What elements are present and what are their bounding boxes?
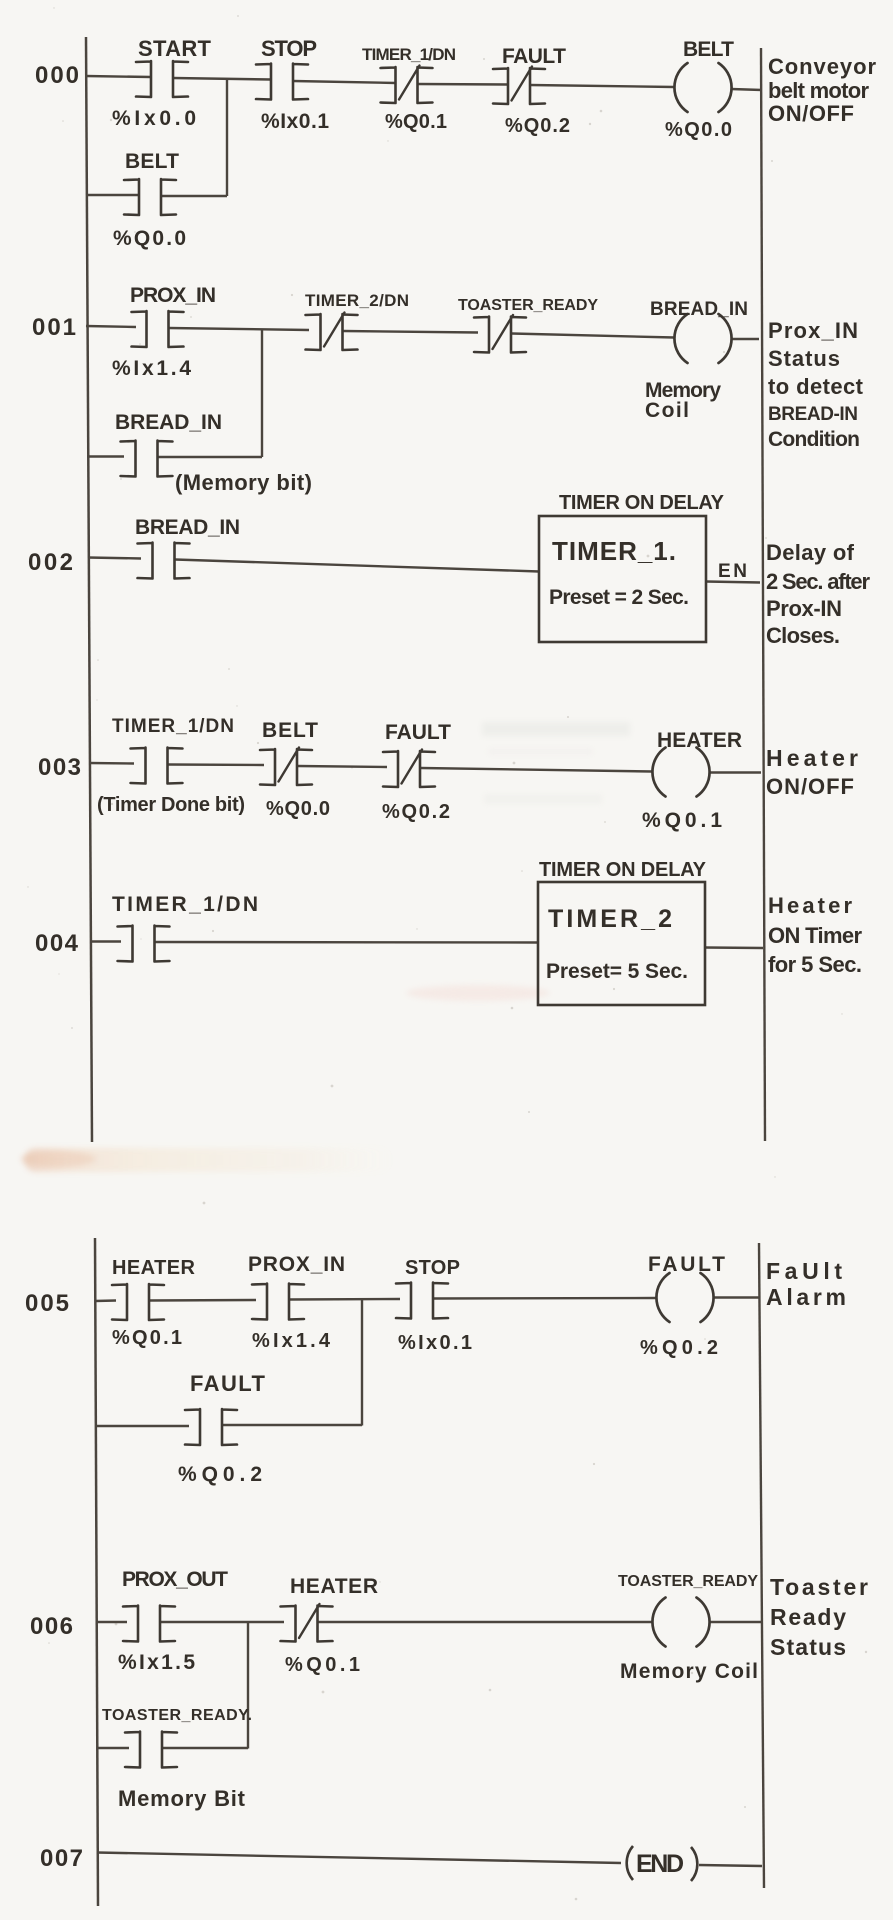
svg-text:%Q0.1: %Q0.1 xyxy=(112,1327,182,1349)
svg-text:PROX_OUT: PROX_OUT xyxy=(122,1568,228,1591)
svg-text:0 0 5: 0 0 5 xyxy=(25,1290,69,1317)
svg-text:START: START xyxy=(138,36,212,61)
svg-text:TIMER_2: TIMER_2 xyxy=(548,905,672,933)
svg-text:Ready: Ready xyxy=(770,1604,846,1630)
svg-text:%Q0.1: %Q0.1 xyxy=(385,111,447,133)
svg-text:Preset= 5 Sec.: Preset= 5 Sec. xyxy=(546,960,688,983)
svg-text:Condition: Condition xyxy=(768,428,860,451)
svg-text:BREAD-IN: BREAD-IN xyxy=(768,404,858,425)
svg-text:ON/OFF: ON/OFF xyxy=(768,101,854,126)
svg-text:Toaster: Toaster xyxy=(770,1574,868,1600)
svg-text:%Ix0.0: %Ix0.0 xyxy=(112,107,196,130)
svg-text:HEATER: HEATER xyxy=(657,729,742,752)
svg-text:STOP: STOP xyxy=(405,1257,460,1279)
svg-text:0 0 3: 0 0 3 xyxy=(38,754,81,781)
svg-text:Prox-IN: Prox-IN xyxy=(766,596,842,621)
svg-text:ON Timer: ON Timer xyxy=(768,923,862,948)
svg-text:END: END xyxy=(636,1850,684,1878)
svg-text:FAULT: FAULT xyxy=(385,721,451,744)
svg-text:%Q0.0: %Q0.0 xyxy=(113,227,186,250)
svg-text:0 0 1: 0 0 1 xyxy=(32,314,76,341)
svg-text:TIMER_1.: TIMER_1. xyxy=(552,536,676,566)
svg-text:TIMER_1/DN: TIMER_1/DN xyxy=(112,716,234,737)
svg-text:ON/OFF: ON/OFF xyxy=(766,774,854,799)
svg-text:BELT: BELT xyxy=(125,150,179,173)
svg-text:%Ix1.4: %Ix1.4 xyxy=(252,1330,331,1352)
svg-text:TIMER ON DELAY: TIMER ON DELAY xyxy=(539,859,707,881)
svg-text:Memory Bit: Memory Bit xyxy=(118,1786,246,1811)
svg-text:TOASTER_READY.: TOASTER_READY. xyxy=(102,1707,252,1724)
svg-text:TIMER_1/DN: TIMER_1/DN xyxy=(362,45,456,64)
svg-text:%Q0.2: %Q0.2 xyxy=(505,115,570,137)
svg-text:2 Sec. after: 2 Sec. after xyxy=(766,569,870,594)
svg-text:TIMER ON DELAY: TIMER ON DELAY xyxy=(559,492,725,514)
svg-text:%Q0.0: %Q0.0 xyxy=(266,798,330,820)
svg-text:for 5 Sec.: for 5 Sec. xyxy=(768,952,862,977)
svg-text:to detect: to detect xyxy=(768,374,864,399)
svg-text:%Q0.0: %Q0.0 xyxy=(665,119,732,141)
svg-text:(Timer Done bit): (Timer Done bit) xyxy=(97,794,245,816)
svg-text:PROX_IN: PROX_IN xyxy=(248,1253,345,1276)
svg-text:FAULT: FAULT xyxy=(502,45,566,68)
svg-text:Preset = 2 Sec.: Preset = 2 Sec. xyxy=(549,586,689,609)
svg-text:TOASTER_READY: TOASTER_READY xyxy=(458,297,598,314)
svg-text:BREAD_IN: BREAD_IN xyxy=(115,411,222,434)
svg-text:0 0 0: 0 0 0 xyxy=(35,62,79,89)
svg-text:0 0 4: 0 0 4 xyxy=(35,930,79,957)
svg-text:Status: Status xyxy=(770,1634,846,1660)
svg-text:STOP: STOP xyxy=(261,36,317,61)
svg-text:belt motor: belt motor xyxy=(768,78,869,103)
svg-text:FAULT: FAULT xyxy=(648,1253,725,1276)
svg-text:BELT: BELT xyxy=(683,38,734,61)
svg-text:0 0 7: 0 0 7 xyxy=(40,1845,83,1872)
svg-text:0 0 2: 0 0 2 xyxy=(28,549,73,576)
svg-text:FAULT: FAULT xyxy=(190,1371,266,1396)
svg-text:BREAD_IN: BREAD_IN xyxy=(650,299,748,320)
svg-text:TIMER_2/DN: TIMER_2/DN xyxy=(305,291,409,310)
svg-text:BREAD_IN: BREAD_IN xyxy=(135,516,240,539)
svg-text:Heater: Heater xyxy=(766,745,858,771)
svg-text:%Ix0.1: %Ix0.1 xyxy=(398,1332,472,1354)
svg-text:Delay of: Delay of xyxy=(766,540,855,565)
svg-text:Heater: Heater xyxy=(768,893,852,918)
svg-text:Prox_IN: Prox_IN xyxy=(768,318,858,343)
svg-text:TOASTER_READY: TOASTER_READY xyxy=(618,1573,758,1590)
svg-text:Memory Coil: Memory Coil xyxy=(620,1660,758,1683)
svg-text:BELT: BELT xyxy=(262,719,318,742)
svg-text:Coil: Coil xyxy=(645,399,689,422)
svg-text:PROX_IN: PROX_IN xyxy=(130,284,216,307)
svg-text:(Memory bit): (Memory bit) xyxy=(175,470,312,495)
svg-text:Status: Status xyxy=(768,346,840,371)
svg-text:Alarm: Alarm xyxy=(766,1284,846,1310)
svg-text:%Ix1.4: %Ix1.4 xyxy=(112,357,191,380)
svg-text:%Ix0.1: %Ix0.1 xyxy=(261,110,329,133)
svg-text:Closes.: Closes. xyxy=(766,623,840,648)
svg-text:Conveyor: Conveyor xyxy=(768,54,876,79)
svg-text:HEATER: HEATER xyxy=(290,1575,378,1598)
svg-text:%Q0.2: %Q0.2 xyxy=(382,801,450,823)
svg-text:0 0 6: 0 0 6 xyxy=(30,1613,73,1640)
svg-text:%Ix1.5: %Ix1.5 xyxy=(118,1651,195,1674)
svg-text:HEATER: HEATER xyxy=(112,1257,196,1279)
svg-text:EN: EN xyxy=(718,561,747,582)
